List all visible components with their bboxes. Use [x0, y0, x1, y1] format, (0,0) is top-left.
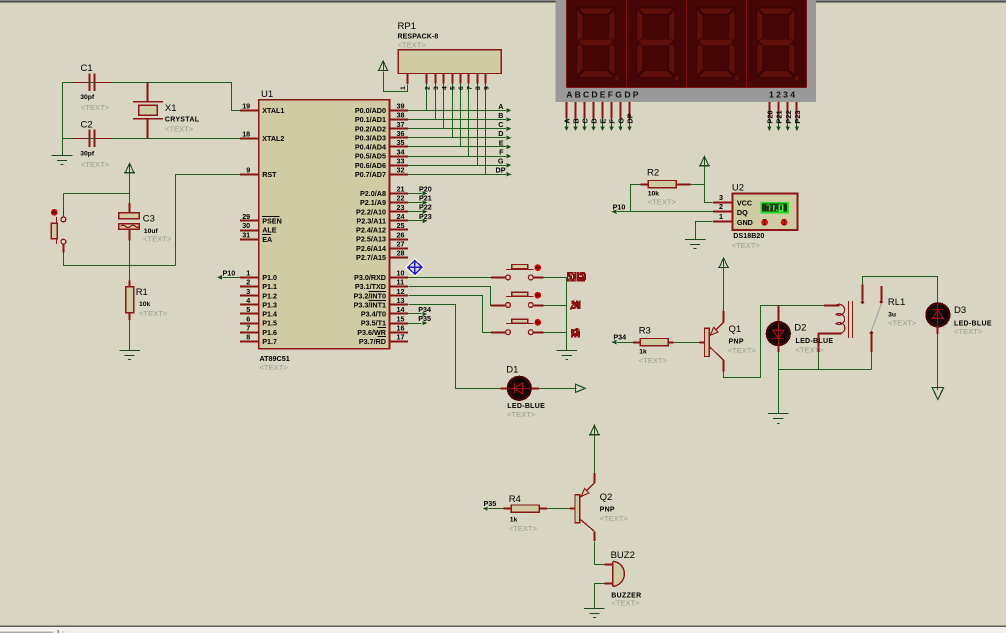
- svg-text:23: 23: [397, 203, 405, 212]
- svg-text:D1: D1: [506, 365, 518, 376]
- wire P3.5 to terminal P35: [408, 323, 422, 325]
- power terminal above Q2: [590, 425, 599, 435]
- wire Q2 collector to buzzer: [594, 531, 596, 541]
- relay coil top stub: [824, 305, 839, 307]
- wire P0.6 to terminal G: [408, 165, 506, 167]
- RP1 pin 2 stub and wire to bus row A: [426, 74, 428, 84]
- svg-text:CRYSTAL: CRYSTAL: [165, 117, 200, 124]
- U1 pin 24 P2.3/A11: [390, 220, 409, 222]
- U1 pin 6 P1.5: [240, 323, 259, 325]
- RP1 pin 7 stub and wire to bus row F: [468, 74, 470, 84]
- svg-text:F: F: [499, 147, 504, 156]
- ground under buttons: [566, 349, 568, 350]
- wire R3 to Q1 base: [673, 342, 699, 344]
- U1 pin 3 P1.2: [240, 295, 259, 297]
- svg-text:P21: P21: [775, 110, 784, 123]
- wire power rail to U2 VCC: [705, 166, 713, 203]
- svg-text:<TEXT>: <TEXT>: [796, 345, 825, 354]
- svg-text:C3: C3: [143, 213, 155, 224]
- svg-text:<TEXT>: <TEXT>: [81, 103, 110, 112]
- svg-text:P1.2: P1.2: [262, 291, 277, 300]
- wire RST bottom row: [64, 265, 176, 267]
- svg-text:P10: P10: [613, 202, 626, 211]
- svg-text:26: 26: [397, 230, 405, 239]
- svg-text:RST: RST: [262, 170, 277, 179]
- wire RST vertical to pin 9: [176, 175, 241, 266]
- ground under R1: [129, 349, 131, 350]
- svg-text:XTAL1: XTAL1: [262, 106, 284, 115]
- svg-text:D3: D3: [954, 305, 966, 316]
- 7-seg digit 4: [756, 8, 795, 78]
- svg-text:P0.7/AD7: P0.7/AD7: [355, 170, 386, 179]
- svg-text:14: 14: [397, 305, 405, 314]
- display segment pins A-DP with terminals: [566, 102, 568, 119]
- svg-text:<TEXT>: <TEXT>: [639, 356, 668, 365]
- U1 pin 33 P0.6/AD6: [390, 165, 409, 167]
- wire P3.2 to button 3: [409, 296, 492, 333]
- svg-text:6: 6: [246, 314, 250, 323]
- svg-text:P20: P20: [419, 184, 432, 193]
- svg-text:BUZ2: BUZ2: [611, 550, 635, 561]
- ground rail for buttons: [566, 277, 568, 349]
- RP1 pin 1 stub and wire to power rail: [407, 74, 409, 85]
- wire DQ row with terminal P10: [617, 211, 713, 213]
- svg-text:1k: 1k: [639, 349, 647, 356]
- down output terminal under D3: [932, 388, 943, 400]
- svg-text:PNP: PNP: [729, 338, 744, 345]
- wire U2 GND to ground: [696, 222, 713, 240]
- svg-text:C1: C1: [81, 63, 93, 74]
- mcu U1 body: [259, 100, 390, 349]
- resistor R4: [504, 508, 512, 510]
- svg-text:R2: R2: [647, 167, 659, 178]
- wire Q2 emitter to power: [594, 435, 596, 473]
- wire Q1 collector to relay net: [723, 360, 725, 371]
- svg-text:G: G: [498, 157, 504, 166]
- RP1 pin 4 stub and wire to bus row C: [443, 74, 445, 84]
- svg-text:7: 7: [467, 86, 474, 90]
- svg-text:15: 15: [397, 314, 405, 323]
- svg-text:<TEXT>: <TEXT>: [260, 363, 289, 372]
- svg-text:P3.5/T1: P3.5/T1: [361, 319, 386, 328]
- wire terminal P34 to R3: [617, 342, 633, 344]
- svg-text:P2.2/A10: P2.2/A10: [356, 207, 386, 216]
- 7-seg digit separators: [626, 0, 628, 87]
- relay core bars: [848, 301, 850, 338]
- 7-seg digit 3: [696, 8, 735, 78]
- wire P2.3 to terminal P23: [408, 220, 422, 222]
- power terminal above Q1: [719, 258, 728, 268]
- resistor R3: [633, 342, 640, 344]
- resistor R1: [129, 281, 131, 288]
- svg-text:2: 2: [425, 86, 432, 90]
- U1 pin 19 XTAL1: [240, 110, 259, 112]
- svg-text:30pf: 30pf: [80, 94, 95, 101]
- U1 pin 32 P0.7/AD7: [390, 174, 409, 176]
- svg-text:P0.4/AD4: P0.4/AD4: [355, 143, 386, 152]
- U1 pin 13 P3.3/INT1: [390, 304, 409, 306]
- wire P0.2 to terminal C: [408, 128, 506, 130]
- relay armature: [871, 303, 881, 331]
- power terminal above U2: [700, 156, 709, 166]
- net label she-zhi (Chinese 'set'): [567, 272, 586, 282]
- svg-text:33: 33: [397, 156, 405, 165]
- transistor Q2 PNP: [575, 495, 580, 523]
- net label jia (Chinese 'increase'): [570, 300, 581, 309]
- svg-text:P22: P22: [419, 203, 432, 212]
- svg-text:<TEXT>: <TEXT>: [648, 197, 677, 206]
- svg-text:13: 13: [397, 296, 405, 305]
- svg-text:P2.7/A15: P2.7/A15: [356, 253, 386, 262]
- svg-text:<TEXT>: <TEXT>: [165, 125, 194, 134]
- U1 pin 37 P0.2/AD2: [390, 128, 409, 130]
- svg-text:P1.4: P1.4: [262, 310, 277, 319]
- svg-text:3: 3: [719, 193, 723, 202]
- svg-text:DQ: DQ: [737, 208, 748, 217]
- svg-text:34: 34: [397, 147, 405, 156]
- svg-text:24: 24: [397, 212, 405, 221]
- U1 pin 29 PSEN: [240, 220, 259, 222]
- svg-text:F: F: [608, 119, 617, 124]
- svg-text:8: 8: [246, 333, 250, 342]
- svg-text:21: 21: [397, 185, 405, 194]
- wire button 2 to ground rail: [533, 305, 543, 307]
- window top border: [0, 0, 1006, 1]
- U1 pin 10 P3.0/RXD: [390, 277, 409, 279]
- blue origin marker: [406, 259, 423, 275]
- led D2 bottom stub: [778, 345, 780, 352]
- wire C2 row / XTAL2 net: [63, 138, 241, 140]
- crystal X1 top stub: [147, 82, 149, 101]
- wire R2 left to DQ net: [631, 185, 641, 212]
- svg-text:10k: 10k: [139, 301, 151, 308]
- svg-text:B: B: [498, 111, 503, 120]
- resistor pack RP1 body: [398, 50, 501, 74]
- svg-text:P22: P22: [784, 110, 793, 123]
- transistor Q1 PNP: [705, 328, 710, 356]
- svg-text:<TEXT>: <TEXT>: [509, 524, 538, 533]
- wire button 1 to ground rail: [533, 277, 543, 279]
- svg-text:9: 9: [246, 166, 250, 175]
- svg-text:P3.1/TXD: P3.1/TXD: [355, 282, 386, 291]
- wire P3.1 to button 2: [409, 287, 492, 306]
- wire D3 to down arrow terminal: [937, 326, 939, 334]
- capacitor C3 bottom plate (polarized): [119, 224, 139, 230]
- svg-text:1: 1: [400, 86, 407, 90]
- svg-text:1: 1: [719, 212, 723, 221]
- svg-text:25: 25: [397, 221, 405, 230]
- push button RESET: [61, 217, 66, 222]
- svg-text:PNP: PNP: [600, 506, 615, 513]
- svg-text:ABCDEFG: ABCDEFG: [566, 90, 624, 100]
- wire P0.3 to terminal D: [408, 137, 506, 139]
- svg-text:C2: C2: [81, 120, 93, 131]
- svg-text:P2.1/A9: P2.1/A9: [360, 198, 386, 207]
- svg-text:RP1: RP1: [398, 21, 416, 32]
- led D1: [508, 377, 531, 400]
- svg-text:12: 12: [397, 287, 405, 296]
- U1 pin 18 XTAL2: [240, 138, 259, 140]
- U1 pin 21 P2.0/A8: [390, 193, 409, 195]
- wire P0.0 to terminal A: [408, 110, 506, 112]
- svg-text:2: 2: [246, 278, 250, 287]
- svg-text:<TEXT>: <TEXT>: [139, 309, 168, 318]
- svg-text:<TEXT>: <TEXT>: [611, 599, 640, 608]
- wire P2.2 to terminal P22: [408, 211, 422, 213]
- svg-text:P1.5: P1.5: [262, 319, 277, 328]
- svg-text:P0.3/AD3: P0.3/AD3: [355, 133, 386, 142]
- U1 pin 23 P2.2/A10: [390, 211, 409, 213]
- svg-text:C: C: [581, 118, 590, 124]
- svg-text:PSEN: PSEN: [262, 217, 282, 226]
- U1 pin 34 P0.5/AD5: [390, 156, 409, 158]
- svg-text:8: 8: [475, 86, 482, 90]
- svg-text:A: A: [563, 118, 572, 124]
- svg-text:D: D: [590, 118, 599, 124]
- svg-text:22: 22: [397, 194, 405, 203]
- led D3: [926, 303, 949, 326]
- svg-text:DP: DP: [626, 113, 635, 123]
- wire relay coil bottom: [818, 333, 841, 335]
- wire P1.0 to terminal P10: [223, 277, 241, 279]
- U1 pin 12 P3.2/INT0: [390, 295, 409, 297]
- svg-text:P1.1: P1.1: [262, 282, 277, 291]
- wire P2.1 to terminal P21: [408, 202, 422, 204]
- wire R2 right to power rail junction: [676, 184, 690, 186]
- svg-text:U2: U2: [732, 182, 744, 193]
- svg-text:17: 17: [397, 333, 405, 342]
- crystal X1: [133, 101, 163, 103]
- svg-text:35: 35: [397, 138, 405, 147]
- relay NO contact stub: [881, 286, 883, 300]
- push button 2 (key 加): [506, 303, 511, 308]
- wire C1 row / XTAL1 net: [63, 83, 241, 111]
- power terminal above C3: [125, 163, 134, 173]
- wire button top branch: [64, 193, 130, 195]
- U1 pin 26 P2.5/A13: [390, 239, 409, 241]
- svg-text:<TEXT>: <TEXT>: [954, 327, 983, 336]
- svg-text:9: 9: [483, 86, 490, 90]
- svg-text:P0.0/AD0: P0.0/AD0: [355, 106, 386, 115]
- wire top rail to relay pole and D3: [863, 277, 938, 304]
- svg-text:DS18B20: DS18B20: [733, 233, 764, 240]
- ground under C2 rail: [62, 154, 64, 155]
- svg-text:7: 7: [246, 323, 250, 332]
- svg-text:31: 31: [242, 230, 250, 239]
- svg-text:6: 6: [458, 86, 465, 90]
- svg-text:P2.4/A12: P2.4/A12: [356, 226, 386, 235]
- svg-text:P1.7: P1.7: [262, 337, 277, 346]
- svg-text:P20: P20: [766, 110, 775, 123]
- wire P0.4 to terminal E: [408, 146, 506, 148]
- wire D2 junction to ground: [778, 370, 780, 414]
- wire P2.0 to terminal P20: [408, 193, 422, 195]
- svg-text:28: 28: [397, 249, 405, 258]
- svg-text:<TEXT>: <TEXT>: [507, 410, 536, 419]
- U1 pin 14 P3.4/T0: [390, 313, 409, 315]
- wire P0.7 to terminal DP: [408, 174, 506, 176]
- svg-text:10: 10: [397, 269, 405, 278]
- svg-text:P23: P23: [793, 110, 802, 123]
- svg-text:R1: R1: [136, 287, 148, 298]
- svg-text:P1.3: P1.3: [262, 300, 277, 309]
- U1 pin 35 P0.4/AD4: [390, 146, 409, 148]
- U1 pin 38 P0.1/AD1: [390, 119, 409, 121]
- svg-text:A: A: [498, 102, 503, 111]
- U1 pin 39 P0.0/AD0: [390, 110, 409, 112]
- svg-text:P2.3/A11: P2.3/A11: [356, 216, 386, 225]
- push button RESET knob: [51, 209, 58, 216]
- push button RESET bottom stub: [63, 244, 65, 252]
- svg-text:D2: D2: [794, 323, 806, 334]
- svg-text:P3.6/WR: P3.6/WR: [357, 328, 387, 337]
- wire bottom rail D2 to relay: [778, 369, 871, 371]
- U1 pin 25 P2.4/A12: [390, 229, 409, 231]
- svg-text:P10: P10: [223, 268, 236, 277]
- wire buzzer bottom to ground: [605, 583, 613, 585]
- display digit pins 1-4 / P20-P23 terminals: [769, 102, 771, 119]
- svg-text:3: 3: [246, 287, 250, 296]
- svg-text:R4: R4: [509, 494, 521, 505]
- svg-text:R3: R3: [639, 326, 651, 337]
- svg-text:P1.6: P1.6: [262, 328, 277, 337]
- svg-text:37: 37: [397, 120, 405, 129]
- U2 LCD readout 71.0: [760, 202, 789, 214]
- svg-text:G: G: [617, 118, 626, 124]
- crystal X1 bottom stub: [147, 119, 149, 139]
- svg-text:36: 36: [397, 129, 405, 138]
- svg-text:P1.0: P1.0: [262, 273, 277, 282]
- 7-segment display DISP1 frame: [556, 0, 817, 102]
- svg-text:30: 30: [242, 221, 250, 230]
- power terminal near RP1: [379, 61, 388, 71]
- U1 pin 17 P3.7/RD: [390, 341, 409, 343]
- svg-text:4: 4: [246, 296, 250, 305]
- svg-text:P34: P34: [613, 332, 626, 341]
- svg-text:P35: P35: [418, 314, 431, 323]
- wire terminal P35 to R4: [488, 508, 503, 510]
- buzzer BUZ2: [613, 561, 624, 586]
- relay RL1 coil: [818, 304, 845, 333]
- U1 pin 8 P1.7: [240, 341, 259, 343]
- wire button 3 to ground rail: [533, 332, 543, 334]
- ground under U2: [695, 239, 697, 240]
- svg-text:19: 19: [242, 102, 250, 111]
- svg-text:C: C: [498, 120, 503, 129]
- RP1 pin 8 stub and wire to bus row G: [477, 74, 479, 84]
- led D2: [767, 322, 790, 345]
- svg-text:<TEXT>: <TEXT>: [81, 160, 110, 169]
- U1 pin 1 P1.0: [240, 277, 259, 279]
- button 2 knob: [534, 292, 541, 299]
- U1 pin 22 P2.1/A9: [390, 202, 409, 204]
- svg-text:AT89C51: AT89C51: [260, 354, 290, 363]
- svg-text:<TEXT>: <TEXT>: [728, 346, 757, 355]
- svg-text:GND: GND: [737, 218, 753, 227]
- svg-text:P35: P35: [484, 499, 497, 508]
- svg-text:<TEXT>: <TEXT>: [398, 41, 427, 50]
- svg-text:P3.2/INT0: P3.2/INT0: [354, 291, 386, 300]
- resistor R2: [648, 181, 676, 188]
- svg-text:16: 16: [397, 323, 405, 332]
- svg-text:DP: DP: [624, 90, 640, 100]
- RP1 pin 6 stub and wire to bus row E: [460, 74, 462, 84]
- svg-text:ALE: ALE: [262, 226, 277, 235]
- RP1 pin 9 stub and wire to bus row DP: [485, 74, 487, 84]
- left rail wire to ground: [62, 83, 64, 155]
- U1 pin 15 P3.5/T1: [390, 323, 409, 325]
- svg-text:29: 29: [242, 212, 250, 221]
- status bar bottom: [0, 626, 1006, 627]
- svg-text:P3.4/T0: P3.4/T0: [361, 310, 386, 319]
- svg-text:P2.0/A8: P2.0/A8: [360, 189, 386, 198]
- svg-text:D: D: [498, 129, 503, 138]
- svg-text:P3.0/RXD: P3.0/RXD: [354, 273, 386, 282]
- svg-text:P0.2/AD2: P0.2/AD2: [355, 124, 386, 133]
- svg-text:<TEXT>: <TEXT>: [143, 234, 172, 243]
- 7-segment display screen: [567, 0, 807, 88]
- ground under BUZ2: [594, 608, 596, 609]
- svg-text:39: 39: [397, 102, 405, 111]
- wire relay common to bottom rail: [871, 334, 873, 352]
- svg-text:P2.6/A14: P2.6/A14: [356, 244, 386, 253]
- U1 pin 30 ALE: [240, 230, 259, 232]
- svg-text:<TEXT>: <TEXT>: [888, 318, 917, 327]
- svg-text:1: 1: [246, 269, 250, 278]
- svg-text:38: 38: [397, 111, 405, 120]
- svg-text:4: 4: [441, 86, 448, 90]
- capacitor C3 top plate: [119, 213, 139, 219]
- U1 pin 5 P1.4: [240, 313, 259, 315]
- output terminal arrow for D1: [575, 384, 585, 392]
- led D3 top stub: [937, 303, 939, 305]
- wire Q1 emitter to power: [723, 268, 725, 312]
- svg-text:5: 5: [246, 305, 250, 314]
- led D2 top stub: [778, 305, 780, 323]
- svg-text:P3.3/INT1: P3.3/INT1: [354, 300, 386, 309]
- wire P0.5 to terminal F: [408, 156, 506, 158]
- svg-text:LED-BLUE: LED-BLUE: [507, 403, 545, 410]
- wire power to C3: [129, 173, 131, 203]
- svg-text:B: B: [572, 118, 581, 123]
- button 3 knob: [534, 319, 541, 326]
- svg-text:P3.7/RD: P3.7/RD: [359, 337, 386, 346]
- RP1 pin 5 stub and wire to bus row D: [452, 74, 454, 84]
- U2 pin stubs: [713, 202, 733, 204]
- U1 pin 16 P3.6/WR: [390, 332, 409, 334]
- U2 indicator LEDs: [761, 219, 768, 226]
- svg-text:P23: P23: [419, 212, 432, 221]
- svg-text:LED-BLUE: LED-BLUE: [796, 338, 834, 345]
- relay pole stub: [862, 285, 864, 301]
- U1 pin 11 P3.1/TXD: [390, 286, 409, 288]
- svg-text:P0.5/AD5: P0.5/AD5: [355, 152, 386, 161]
- svg-text:Q2: Q2: [600, 492, 613, 503]
- svg-text:18: 18: [242, 130, 250, 139]
- svg-text:EA: EA: [262, 235, 272, 244]
- RP1 pin 3 stub and wire to bus row B: [435, 74, 437, 84]
- wire D1 to output terminal: [531, 388, 539, 390]
- U1 pin 36 P0.3/AD3: [390, 137, 409, 139]
- capacitor C2: [88, 129, 90, 147]
- 7-seg digit 1: [576, 8, 615, 78]
- svg-text:X1: X1: [165, 103, 177, 114]
- svg-text:5: 5: [450, 86, 457, 90]
- svg-text:VCC: VCC: [737, 198, 752, 207]
- push button 1 (key 设置): [506, 275, 511, 280]
- svg-text:1k: 1k: [510, 516, 518, 523]
- svg-text:11: 11: [397, 278, 405, 287]
